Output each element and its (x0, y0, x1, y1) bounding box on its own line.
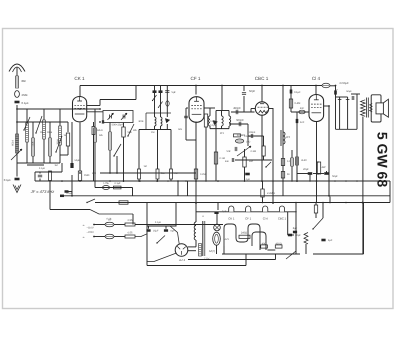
svg-text:300k: 300k (47, 131, 53, 134)
svg-text:500pF: 500pF (236, 119, 244, 122)
svg-text:0.1µF: 0.1µF (294, 91, 301, 94)
svg-text:2M: 2M (175, 172, 178, 175)
svg-text:50µF: 50µF (346, 90, 352, 93)
svg-text:2kΩ: 2kΩ (246, 141, 251, 144)
svg-text:~110V: ~110V (87, 227, 94, 230)
svg-text:JF2: JF2 (286, 136, 291, 139)
svg-text:100pF: 100pF (249, 131, 256, 134)
svg-text:CBC 1: CBC 1 (278, 216, 287, 220)
svg-text:0.2M: 0.2M (200, 173, 205, 176)
svg-text:Cl 4: Cl 4 (312, 76, 321, 81)
svg-text:0.1µF: 0.1µF (22, 101, 29, 105)
svg-text:JF1: JF1 (220, 132, 225, 135)
svg-text:CK 1: CK 1 (74, 76, 85, 81)
svg-text:0.55: 0.55 (128, 231, 133, 234)
svg-text:400: 400 (92, 172, 97, 175)
svg-text:CF 1: CF 1 (245, 216, 252, 220)
svg-text:5nF: 5nF (225, 160, 230, 163)
svg-text:0.3M: 0.3M (210, 120, 215, 123)
svg-text:435Ω: 435Ω (275, 243, 281, 246)
svg-text:250k: 250k (22, 93, 29, 97)
svg-text:1M: 1M (144, 165, 147, 168)
svg-text:0.5µF: 0.5µF (67, 192, 74, 195)
svg-text:50kΩm: 50kΩm (237, 134, 246, 137)
svg-text:8µF: 8µF (293, 227, 298, 230)
svg-text:CBC 1: CBC 1 (255, 76, 269, 81)
svg-text:50µF: 50µF (332, 175, 338, 178)
svg-text:1M: 1M (64, 134, 67, 137)
svg-text:4W: 4W (322, 166, 326, 169)
svg-text:1.75k: 1.75k (103, 182, 109, 185)
svg-text:1µF: 1µF (222, 210, 227, 213)
svg-text:2×50µF: 2×50µF (339, 82, 349, 85)
svg-text:0.4M: 0.4M (295, 102, 301, 105)
svg-text:1µF: 1µF (328, 239, 333, 242)
svg-text:300k: 300k (138, 120, 144, 123)
svg-text:1nF: 1nF (300, 107, 305, 110)
svg-text:5µF: 5µF (172, 91, 177, 94)
svg-text:6014: 6014 (12, 140, 15, 146)
svg-text:2.2MΩ: 2.2MΩ (267, 192, 275, 195)
svg-text:~220V: ~220V (87, 231, 95, 234)
svg-text:7500: 7500 (57, 139, 60, 145)
svg-text:20µF: 20µF (303, 168, 309, 171)
svg-text:5 GW 68: 5 GW 68 (375, 132, 391, 187)
svg-text:CK 1: CK 1 (228, 216, 235, 220)
svg-text:≈: ≈ (83, 236, 85, 240)
svg-text:0.55: 0.55 (128, 219, 133, 222)
svg-text:5nF: 5nF (227, 150, 232, 153)
svg-text:150k: 150k (32, 141, 35, 147)
svg-text:25µF: 25µF (153, 230, 159, 233)
svg-text:50pF: 50pF (249, 90, 255, 93)
svg-text:0.3M: 0.3M (251, 150, 256, 153)
svg-text:CF 1: CF 1 (191, 76, 201, 81)
svg-text:AZ1: AZ1 (225, 238, 230, 241)
svg-text:240Ω: 240Ω (241, 232, 247, 235)
svg-text:50µF: 50µF (75, 159, 81, 162)
svg-text:JF = 473 kHz: JF = 473 kHz (30, 189, 55, 194)
svg-text:AZ(?): AZ(?) (209, 250, 215, 253)
svg-text:0.1µF: 0.1µF (115, 182, 122, 185)
svg-text:0.1A: 0.1A (107, 218, 112, 221)
svg-text:450pF: 450pF (233, 107, 241, 110)
svg-text:1M: 1M (40, 131, 43, 134)
svg-text:88c: 88c (22, 79, 27, 83)
svg-text:0.1µF: 0.1µF (4, 178, 11, 182)
svg-text:50kΩ: 50kΩ (97, 129, 103, 132)
svg-text:0.1µF: 0.1µF (155, 221, 162, 224)
svg-text:0.1µF: 0.1µF (210, 124, 217, 127)
svg-text:1M: 1M (151, 131, 154, 134)
svg-text:1nF: 1nF (300, 121, 305, 124)
svg-text:40Ω: 40Ω (262, 243, 267, 246)
svg-text:1M: 1M (54, 164, 57, 167)
svg-text:AJ 1: AJ 1 (178, 258, 185, 262)
svg-text:500+25pF: 500+25pF (112, 124, 124, 127)
svg-text:0.1µF: 0.1µF (39, 167, 46, 170)
svg-text:≈: ≈ (83, 224, 85, 228)
svg-text:1MΩ: 1MΩ (84, 174, 89, 177)
svg-text:Cl 4: Cl 4 (263, 216, 268, 220)
svg-text:JL60: JL60 (301, 159, 307, 162)
